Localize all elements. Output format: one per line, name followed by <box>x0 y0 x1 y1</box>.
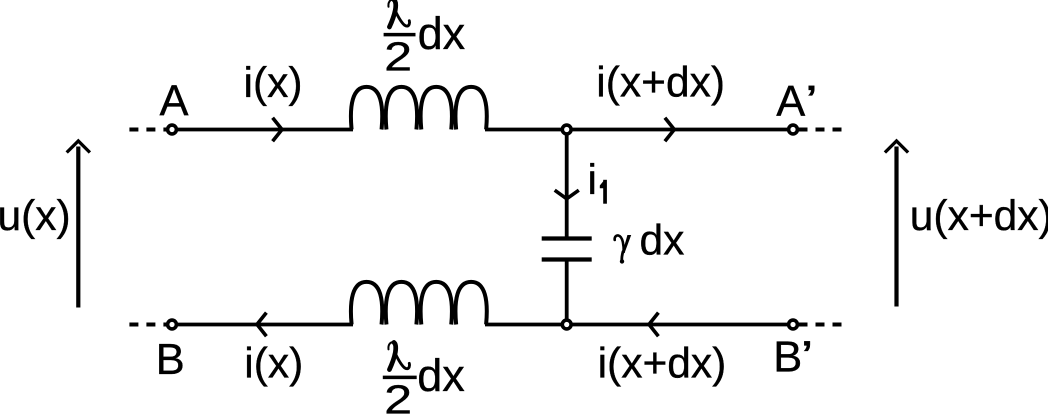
svg-text:2: 2 <box>384 377 412 416</box>
svg-text:’: ’ <box>800 332 813 381</box>
svg-text:i: i <box>588 157 597 204</box>
label gamma dx (capacitor value): gamma glyph <box>615 235 632 264</box>
capacitor C (gamma dx) top plate <box>542 236 592 240</box>
label lambda/2 dx bottom (inductor value): fraction bar <box>383 376 417 380</box>
wire top-left dashed stub at A <box>129 128 166 132</box>
svg-text:dx: dx <box>640 218 685 265</box>
svg-text:B: B <box>773 334 802 382</box>
node terminal B' (open circle) <box>789 320 798 329</box>
svg-text:dx: dx <box>417 350 465 401</box>
label lambda/2 dx bottom: lambda glyph <box>388 342 409 370</box>
svg-text:u(x): u(x) <box>0 193 71 240</box>
inductor L1 top (lambda/2 dx) <box>351 87 487 130</box>
svg-text:2: 2 <box>384 34 412 80</box>
wire top-right dashed stub at A' <box>799 128 846 132</box>
svg-text:u(x+dx): u(x+dx) <box>910 193 1048 240</box>
wire bottom-right dashed stub at B' <box>799 323 846 327</box>
voltage arrow u(x+dx) right <box>894 147 898 307</box>
inductor L2 bottom (lambda/2 dx) <box>351 282 487 325</box>
arrow i(x+dx) top (right-pointing chevron) <box>665 118 674 142</box>
svg-text:B: B <box>156 336 185 384</box>
svg-text:A: A <box>776 78 805 126</box>
node junction top (open circle) <box>562 125 571 134</box>
node junction bottom (open circle) <box>562 320 571 329</box>
wire top inductor to A' <box>485 128 788 132</box>
svg-text:i(x): i(x) <box>244 341 303 388</box>
wire bottom-left B to inductor <box>172 323 353 327</box>
arrow i(x+dx) bottom (left-pointing chevron) <box>649 313 658 337</box>
svg-text:’: ’ <box>805 76 818 125</box>
label i1 subscript digit 1 (custom footless glyph) <box>603 180 607 204</box>
svg-text:i(x): i(x) <box>244 60 303 107</box>
wire bottom-left dashed stub at B <box>129 323 166 327</box>
arrow i(x) bottom (left-pointing chevron) <box>257 313 266 337</box>
arrow i1 (down-pointing chevron) <box>555 190 579 199</box>
label lambda/2 dx top: lambda glyph <box>388 0 409 27</box>
svg-text:i(x+dx): i(x+dx) <box>598 341 727 388</box>
wire middle vertical branch lower <box>565 262 569 325</box>
svg-text:i(x+dx): i(x+dx) <box>596 60 725 107</box>
node terminal A' (open circle) <box>789 125 798 134</box>
wire middle vertical branch upper <box>565 130 569 237</box>
wire bottom inductor to B' <box>485 323 788 327</box>
voltage arrow u(x) left <box>76 147 80 308</box>
svg-text:A: A <box>160 78 189 126</box>
svg-text:dx: dx <box>418 8 466 59</box>
label lambda/2 dx top (inductor value): fraction bar <box>384 33 416 37</box>
node terminal A (open circle) <box>168 125 177 134</box>
arrow i(x) top (right-pointing chevron) <box>273 118 282 142</box>
wire top-left A to inductor <box>172 128 353 132</box>
node terminal B (open circle) <box>168 320 177 329</box>
capacitor C (gamma dx) bottom plate <box>542 257 592 261</box>
